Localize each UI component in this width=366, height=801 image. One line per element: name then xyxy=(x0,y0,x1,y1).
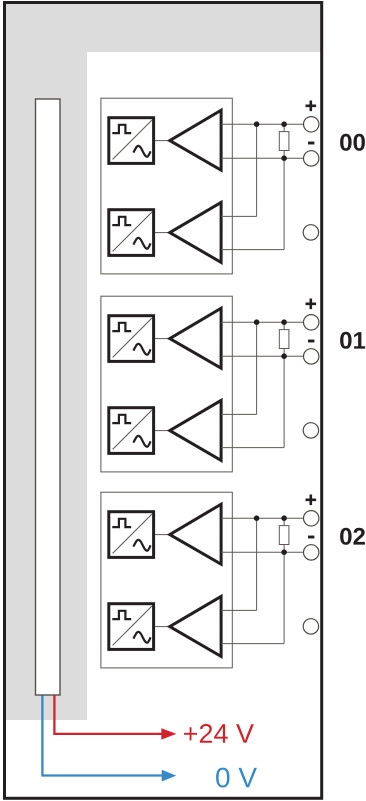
junction dot node 00b xyxy=(281,121,287,127)
resistor R1 xyxy=(279,132,289,151)
amplifier A5 triangle xyxy=(170,504,221,564)
junction dot node 01a xyxy=(254,319,260,325)
wire +24V red xyxy=(54,696,163,734)
DAC converter U2 box xyxy=(109,210,154,256)
amplifier A2 triangle xyxy=(170,202,221,262)
junction dot node 02c xyxy=(281,549,287,555)
terminal circle aux channel 01 xyxy=(303,423,318,438)
DAC U1 sine symbol xyxy=(133,146,150,157)
DAC U1 pulse symbol xyxy=(112,125,131,133)
DAC U1 diagonal xyxy=(113,120,152,159)
wire A3 minus output to terminal - xyxy=(221,355,304,357)
arrowhead 0V xyxy=(162,770,177,782)
junction dot node 01b xyxy=(281,319,287,325)
terminal circle aux channel 02 xyxy=(303,619,318,634)
DAC U4 sine symbol xyxy=(133,436,150,447)
DAC U4 pulse symbol xyxy=(112,415,131,423)
resistor R2 xyxy=(279,330,289,349)
wire A3 plus output to terminal + xyxy=(221,321,304,323)
wire A2 minus output horizontal xyxy=(221,249,284,251)
wire A2 plus output horizontal xyxy=(221,215,257,217)
junction dot node 02b xyxy=(281,515,287,521)
amplifier A4 triangle xyxy=(170,400,221,460)
channel 01 group box xyxy=(101,296,232,472)
wire 0V blue xyxy=(42,696,163,776)
wire A1 minus output to terminal - xyxy=(221,157,304,159)
terminal circle + channel 00 xyxy=(304,117,319,132)
channel label 00 xyxy=(340,134,365,151)
junction dot node 00c xyxy=(281,155,287,161)
wire U4 to amplifier A4 xyxy=(155,430,170,432)
DAC U4 diagonal xyxy=(113,410,152,449)
DAC U5 pulse symbol xyxy=(112,519,131,527)
terminal circle + channel 01 xyxy=(304,315,319,330)
DAC U2 sine symbol xyxy=(133,238,150,249)
wire A6 plus output horizontal xyxy=(221,609,257,611)
DAC converter U6 box xyxy=(109,604,154,650)
label 0 V xyxy=(216,768,257,788)
amplifier A1 triangle xyxy=(170,110,221,170)
wire A4 minus output vertical riser / R2 leads xyxy=(283,322,285,447)
DAC U3 pulse symbol xyxy=(112,323,131,331)
terminal circle - channel 02 xyxy=(304,545,319,560)
channel label 01 xyxy=(340,332,365,349)
DAC U5 diagonal xyxy=(113,514,152,553)
wire U3 to amplifier A3 xyxy=(155,338,170,340)
wire A4 minus output horizontal xyxy=(221,447,284,449)
wire A6 minus output horizontal xyxy=(221,643,284,645)
wire A4 plus output vertical riser xyxy=(256,322,258,414)
amplifier A6 triangle xyxy=(170,596,221,656)
DAC U3 sine symbol xyxy=(133,344,150,355)
wire A1 plus output to terminal + xyxy=(221,123,304,125)
plus sign channel 01 xyxy=(306,299,317,310)
DAC U6 sine symbol xyxy=(133,632,150,643)
terminal circle + channel 02 xyxy=(304,511,319,526)
wire A6 plus output vertical riser xyxy=(256,518,258,610)
wire U5 to amplifier A5 xyxy=(155,534,170,536)
wire A5 plus output to terminal + xyxy=(221,517,304,519)
arrowhead +24V xyxy=(161,728,176,739)
amplifier A3 triangle xyxy=(170,308,221,368)
plus sign channel 02 xyxy=(306,495,317,506)
resistor R3 xyxy=(279,526,289,545)
wire U1 to amplifier A1 xyxy=(155,140,170,142)
wire A4 plus output horizontal xyxy=(221,413,257,415)
minus sign channel 02 xyxy=(308,536,314,539)
terminal circle aux channel 00 xyxy=(303,225,318,240)
DAC U6 pulse symbol xyxy=(112,611,131,619)
minus sign channel 01 xyxy=(308,340,314,343)
wire A2 minus output vertical riser / R1 leads xyxy=(283,124,285,249)
channel label 02 xyxy=(340,528,365,545)
module gray body xyxy=(6,4,321,720)
DAC U2 diagonal xyxy=(113,212,152,251)
DAC converter U1 box xyxy=(109,118,154,164)
junction dot node 01c xyxy=(281,353,287,359)
DAC converter U4 box xyxy=(109,408,154,454)
plus sign channel 00 xyxy=(306,101,317,112)
wire A6 minus output vertical riser / R3 leads xyxy=(283,518,285,643)
terminal circle - channel 00 xyxy=(304,151,319,166)
DAC converter U5 box xyxy=(109,512,154,558)
bus connector bar xyxy=(36,99,61,695)
channel 00 group box xyxy=(101,98,232,274)
terminal circle - channel 01 xyxy=(304,349,319,364)
wire A2 plus output vertical riser xyxy=(256,124,258,216)
wire U6 to amplifier A6 xyxy=(155,626,170,628)
wire A5 minus output to terminal - xyxy=(221,551,304,553)
DAC U6 diagonal xyxy=(113,606,152,645)
DAC U3 diagonal xyxy=(113,318,152,357)
DAC U2 pulse symbol xyxy=(112,217,131,225)
junction dot node 00a xyxy=(254,121,260,127)
label +24 V xyxy=(184,724,254,743)
wire U2 to amplifier A2 xyxy=(155,232,170,234)
DAC converter U3 box xyxy=(109,316,154,362)
DAC U5 sine symbol xyxy=(133,540,150,551)
junction dot node 02a xyxy=(254,515,260,521)
minus sign channel 00 xyxy=(308,142,314,145)
channel 02 group box xyxy=(101,492,232,668)
